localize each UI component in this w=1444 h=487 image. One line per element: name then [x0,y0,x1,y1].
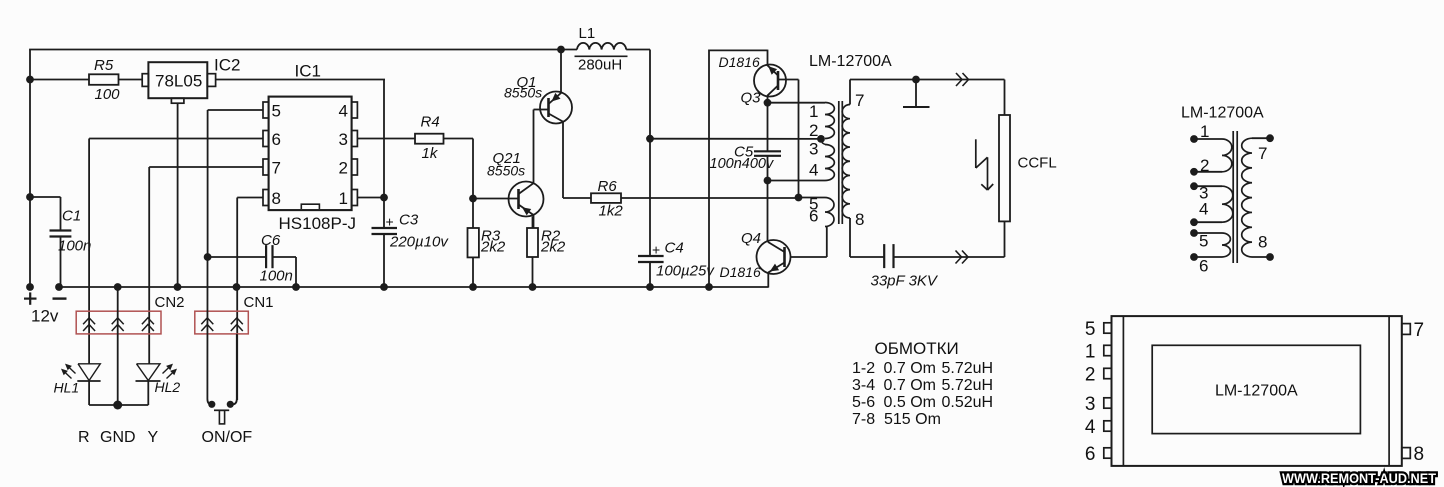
svg-text:CN1: CN1 [244,294,274,311]
wire Q4 collector [767,181,769,242]
node R2 ground [529,283,537,291]
wire pin1 connection [768,102,826,104]
svg-text:L1: L1 [579,25,596,42]
svg-text:R: R [78,429,90,446]
pinout pin1 [1190,122,1222,143]
label HS108P-J [279,214,356,233]
wire Q21 collector to Q1 base [534,110,549,184]
wire R6 to pin5 node [621,197,799,199]
wire Q4 base to pin6 [791,227,827,258]
node HV ground junction [912,76,920,84]
svg-text:5-6: 5-6 [852,394,875,411]
svg-text:3: 3 [1085,394,1096,415]
capacitor 33pF 3KV [871,244,939,289]
resistor R5 [89,57,120,103]
push button ON/OF contacts [207,257,236,408]
capacitor C3 [372,212,450,288]
wire LED common [89,381,148,405]
wire L1 to C4 node [626,50,650,257]
pinout pin2 [1190,156,1222,176]
svg-text:Q3: Q3 [741,90,762,107]
ground symbol [903,80,930,108]
svg-text:0.7 Om: 0.7 Om [884,360,936,377]
pinout pin6 [1190,253,1222,275]
svg-text:LM-12700A: LM-12700A [809,53,892,70]
wire pin5 connection [799,197,826,199]
resistor R6 [591,178,623,220]
svg-text:100n400v: 100n400v [710,156,774,172]
svg-text:+: + [386,214,394,230]
svg-text:220µ10v: 220µ10v [389,234,449,251]
wire Q1 collector to R6 [563,122,591,198]
label LM-12700A title [809,53,892,70]
wire Q1 emitter to top rail [560,50,562,93]
svg-text:8: 8 [272,189,281,208]
HV wire marks bottom [956,251,969,264]
svg-text:4: 4 [1199,200,1208,219]
svg-text:1k2: 1k2 [599,203,624,220]
wire to transformer pin2 [650,138,821,140]
node Q1 top rail junction [557,46,565,54]
svg-text:5.72uH: 5.72uH [942,377,994,394]
label IC2 [214,56,240,75]
pinout pin8 [1252,233,1274,261]
svg-text:4: 4 [809,161,818,180]
svg-text:1k: 1k [422,145,439,162]
wire pin7 to CCFL top [850,80,1005,116]
svg-text:2k2: 2k2 [540,239,566,256]
wire 33pF to CCFL bottom [894,221,1005,257]
wire CN2 gnd pin [117,287,119,405]
svg-text:Q4: Q4 [741,230,761,247]
svg-text:515 Om: 515 Om [884,411,941,428]
svg-text:8550s: 8550s [487,163,525,179]
transformer T1 secondary 7-8 [842,105,850,219]
label LM-12700A pinout title [1181,105,1264,122]
pinout winding 1-2 [1222,139,1232,172]
transistor Q1 8550s [504,74,572,124]
package label text [1215,383,1298,400]
svg-text:5: 5 [272,102,281,121]
package pin 6 [1085,444,1112,465]
resistor R3 [468,199,506,288]
label ON/OF [202,429,253,446]
svg-text:D1816: D1816 [719,54,760,70]
svg-text:6: 6 [1199,257,1208,276]
node CN2 gnd rail [114,283,122,291]
node IC1 pin8 ground [233,283,241,291]
capacitor C6 [208,232,296,287]
package pin 1 [1085,341,1112,362]
capacitor C1 [30,197,91,287]
svg-text:3-4: 3-4 [852,377,875,394]
svg-text:7: 7 [855,91,864,110]
IC U1 pin numbers [272,102,349,209]
label CN2 [155,294,185,311]
svg-text:1: 1 [1200,122,1209,141]
svg-text:100: 100 [95,86,121,103]
LED HL1 [61,364,101,381]
svg-text:0.7 Om: 0.7 Om [884,377,936,394]
svg-text:12v: 12v [31,307,59,326]
svg-text:78L05: 78L05 [155,72,202,91]
pinout pin7 [1252,134,1274,163]
wire pin8 to 33pF [850,218,884,257]
transformer T1 winding 3-4 [825,145,834,181]
package pin 5 [1085,319,1112,340]
wire R4 to Q21 base node [444,139,474,199]
node Q3 collector junction [764,99,772,107]
wire Q3 emitter ground frame [709,50,768,287]
svg-text:C6: C6 [261,232,281,249]
package inner lines [1123,316,1389,466]
svg-text:0.5 Om: 0.5 Om [884,394,936,411]
push button actuator [214,410,229,424]
svg-text:7: 7 [1414,320,1425,341]
svg-text:6: 6 [809,207,818,226]
svg-text:2: 2 [1085,364,1096,385]
high voltage arrow [976,139,993,190]
svg-text:4: 4 [339,102,348,121]
table row 1-2 [852,360,993,377]
svg-text:4: 4 [1085,417,1096,438]
svg-text:C4: C4 [665,240,684,257]
terminal - input [53,283,67,299]
svg-text:6: 6 [1085,444,1096,465]
transformer T1 winding 5-6 [825,198,834,227]
label R GND Y [78,429,159,446]
node frame ground [705,283,713,291]
label IC1 [295,62,321,81]
svg-text:8: 8 [855,210,864,229]
svg-text:2k2: 2k2 [480,239,506,256]
svg-text:+: + [652,242,660,258]
table row 5-6 [852,394,993,411]
voltage regulator IC2 78L05 [142,62,215,103]
label HL2 [155,379,181,395]
svg-text:R4: R4 [421,114,440,131]
svg-text:7: 7 [1258,144,1267,163]
svg-text:8: 8 [1258,233,1267,252]
node C3 ground [380,283,388,291]
wire IC1 pin3 to R4 [357,138,415,140]
svg-text:HS108P-J: HS108P-J [279,214,356,233]
wire +12V to R5 [30,79,89,81]
transistor Q3 D1816 [719,54,787,107]
node pin2/pin3 junction [817,135,825,145]
pinout pin5 [1190,229,1222,250]
node C5/pin4/Q4 junction [764,177,772,185]
svg-text:HL2: HL2 [155,379,181,395]
wire IC2 ground pin [177,103,179,287]
svg-text:C1: C1 [62,208,81,225]
svg-text:IC1: IC1 [295,62,321,81]
inductor L1 [575,25,628,74]
node IC1 pin1 junction [380,194,388,202]
resistor R2 [527,217,566,288]
watermark www.remont-aud.net [1282,471,1437,486]
table row 3-4 [852,377,993,394]
pinout winding 5-6 [1222,233,1230,257]
svg-text:2: 2 [339,159,348,178]
svg-text:0.52uH: 0.52uH [942,394,994,411]
connector CN1 [195,311,249,334]
connector CN2 [76,311,161,334]
transistor Q4 D1816 [720,230,791,280]
label CCFL [1018,155,1057,172]
svg-text:CCFL: CCFL [1018,155,1057,172]
wire Q3 base [778,80,799,198]
wire IC2 output to IC1 pin1 node [216,80,385,229]
svg-text:IC2: IC2 [214,56,240,75]
svg-text:7: 7 [272,159,281,178]
node C6 left junction [204,253,212,261]
wire Q21 emitter to R2 [533,215,535,228]
pinout core [1233,131,1237,263]
node LED common junction [113,401,122,410]
node C6 ground [292,283,300,291]
capacitor C5 [710,103,782,181]
node Q21 base junction [469,195,477,203]
svg-text:280uH: 280uH [578,57,622,74]
svg-text:D1816: D1816 [720,264,761,280]
node C4 ground [646,283,654,291]
svg-text:8550s: 8550s [504,85,542,101]
label CN1 [244,294,274,311]
wire base node to Q21 [473,198,519,200]
pinout pin4 [1190,200,1222,227]
svg-text:2: 2 [1200,156,1209,175]
svg-text:LM-12700A: LM-12700A [1181,105,1264,122]
package pin 2 [1085,364,1112,385]
pinout winding 7-8 [1242,138,1252,257]
package pin 3 [1085,394,1112,415]
wire +12V input vertical [29,50,31,286]
package pin 8 [1402,444,1424,465]
svg-text:HL1: HL1 [54,380,80,396]
svg-text:33pF 3KV: 33pF 3KV [871,273,939,290]
CCFL lamp [999,115,1010,221]
svg-text:WWW.REMONT-AUD.NET: WWW.REMONT-AUD.NET [1282,471,1437,486]
svg-text:8: 8 [1414,444,1425,465]
resistor R4 [415,114,444,163]
package pin 7 [1402,320,1424,341]
wire IC1 pin5 to C6 node [208,110,263,257]
svg-text:5: 5 [1199,232,1208,251]
table header [875,339,959,358]
wire Q3 collector [767,96,769,103]
wire IC1 pin6 to CN2 pin R [89,139,263,364]
table row 7-8 [852,411,941,428]
pinout pin3 [1190,182,1222,202]
wire pin4 connection [768,180,826,182]
label 12v [31,307,59,326]
svg-text:Y: Y [148,429,159,446]
label HL1 [54,380,80,396]
svg-text:LM-12700A: LM-12700A [1215,383,1298,400]
IC U1 HS108P-J body [269,97,352,211]
terminal + input [24,283,37,305]
svg-text:CN2: CN2 [155,294,185,311]
node R3 ground [469,283,477,291]
svg-text:100n: 100n [260,268,293,285]
svg-text:7-8: 7-8 [852,411,875,428]
node IC2 ground to rail [174,283,182,291]
wire IC1 pin7 to CN2 pin Y [149,167,263,364]
svg-text:C3: C3 [399,212,419,229]
svg-text:R5: R5 [94,57,114,74]
svg-text:6: 6 [272,130,281,149]
node R6/base/pin5 junction [795,194,803,202]
svg-text:3: 3 [339,130,348,149]
wire top +12V rail [29,49,577,51]
node R5 branch junction [26,76,34,84]
pinout winding 3-4 [1222,186,1233,222]
transformer T1 pin digits [809,91,864,229]
transistor Q21 8550s [487,150,544,217]
wire Q4 emitter to rail [767,273,769,288]
svg-text:R6: R6 [598,178,618,195]
svg-text:ОБМОТКИ: ОБМОТКИ [875,339,959,358]
svg-text:GND: GND [100,429,136,446]
svg-text:1: 1 [339,189,348,208]
package label box [1152,345,1360,433]
svg-text:3: 3 [809,140,818,159]
wire Q3 emitter up [767,50,769,65]
svg-text:2: 2 [809,121,818,140]
IC U1 pin boxes [263,102,357,206]
capacitor C4 [638,240,715,288]
svg-text:100µ25v: 100µ25v [656,263,715,280]
transformer T1 winding 1-2 [825,103,834,139]
package outline [1112,316,1402,466]
package pin 4 [1085,417,1112,438]
svg-text:100n: 100n [58,238,91,255]
svg-text:1: 1 [809,102,818,121]
svg-text:ON/OF: ON/OF [202,429,253,446]
svg-text:5: 5 [1085,319,1096,340]
LED HL2 [136,364,178,381]
node C1 branch junction [26,193,34,201]
node L1/pin2 junction [646,135,654,143]
svg-text:1-2: 1-2 [852,360,875,377]
HV wire marks top [956,73,969,86]
wire ground rail [59,286,769,288]
svg-text:1: 1 [1085,341,1096,362]
wire IC1 pin8 to CN1 [237,198,263,401]
wire R5 to IC2 [119,79,143,81]
transformer T1 core [839,101,843,224]
wire IC1 pin1 [357,197,384,199]
svg-text:5.72uH: 5.72uH [942,360,994,377]
